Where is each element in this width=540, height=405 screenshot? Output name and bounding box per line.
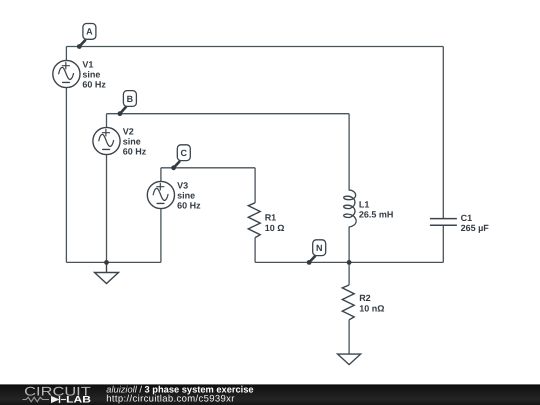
- svg-text:sine: sine: [82, 70, 100, 80]
- svg-text:V3: V3: [177, 180, 188, 190]
- svg-text:V2: V2: [123, 126, 134, 136]
- resistor R1: [248, 203, 260, 238]
- wire V2 bottom stem: [106, 155, 108, 263]
- svg-text:sine: sine: [123, 137, 141, 147]
- svg-text:B: B: [127, 94, 134, 104]
- svg-text:60 Hz: 60 Hz: [177, 200, 201, 210]
- svg-text:C: C: [181, 148, 188, 158]
- wire bottom right rail: [255, 261, 443, 263]
- wire V2 top stem: [106, 114, 108, 128]
- node flag A: [79, 24, 96, 47]
- footer bar: [0, 384, 540, 405]
- junction V2/ground: [104, 260, 109, 265]
- wire R1 bottom lead: [254, 238, 256, 263]
- svg-text:LAB: LAB: [66, 395, 91, 405]
- svg-text:265 µF: 265 µF: [461, 223, 490, 233]
- svg-text:R2: R2: [359, 293, 371, 303]
- wire A top rail: [66, 46, 443, 48]
- svg-text:60 Hz: 60 Hz: [82, 79, 106, 89]
- wire C1 bottom vertical: [442, 225, 444, 262]
- svg-text:R1: R1: [265, 213, 277, 223]
- node flag N: [309, 240, 326, 263]
- wire L1 top vertical: [348, 114, 350, 190]
- wire R1 top lead: [254, 168, 256, 203]
- wire C1 top vertical: [442, 47, 444, 219]
- wire B rail: [107, 113, 350, 115]
- wire bottom left rail: [66, 261, 160, 263]
- svg-text:N: N: [316, 243, 323, 253]
- wire L1 bottom vertical: [348, 227, 350, 262]
- junction node C: [171, 165, 176, 170]
- wire R2 bottom lead: [348, 320, 350, 354]
- svg-text:60 Hz: 60 Hz: [123, 146, 147, 156]
- svg-text:10 Ω: 10 Ω: [265, 223, 285, 233]
- wire V3 bottom stem: [160, 209, 162, 263]
- capacitor C1: [430, 219, 457, 226]
- junction node A: [77, 44, 82, 49]
- wire V1 top stem: [65, 47, 67, 61]
- wire R2 top lead: [348, 262, 350, 285]
- svg-text:L1: L1: [359, 200, 370, 210]
- resistor R2: [342, 285, 354, 320]
- inductor L1: [344, 190, 356, 227]
- logo resistor-diode glyph: [23, 397, 67, 402]
- wire V1 bottom stem: [65, 88, 67, 263]
- svg-text:C1: C1: [461, 213, 473, 223]
- wire C rail: [161, 167, 255, 169]
- source V2: [93, 127, 120, 154]
- svg-text:A: A: [86, 27, 93, 37]
- node flag B: [120, 91, 136, 114]
- wire V3 top stem: [160, 168, 162, 182]
- junction L1/R2: [347, 260, 352, 265]
- svg-text:26.5 mH: 26.5 mH: [359, 210, 394, 220]
- svg-text:sine: sine: [177, 191, 195, 201]
- source V1: [53, 60, 80, 87]
- ground GND1: [95, 262, 119, 283]
- junction node B: [118, 111, 123, 116]
- svg-text:V1: V1: [82, 59, 93, 69]
- source V3: [147, 181, 174, 208]
- ground GND2: [338, 354, 361, 365]
- node flag C: [174, 145, 191, 168]
- svg-text:http://circuitlab.com/c5939xr: http://circuitlab.com/c5939xr: [106, 394, 234, 405]
- svg-text:10 nΩ: 10 nΩ: [359, 303, 384, 313]
- junction node N: [307, 260, 312, 265]
